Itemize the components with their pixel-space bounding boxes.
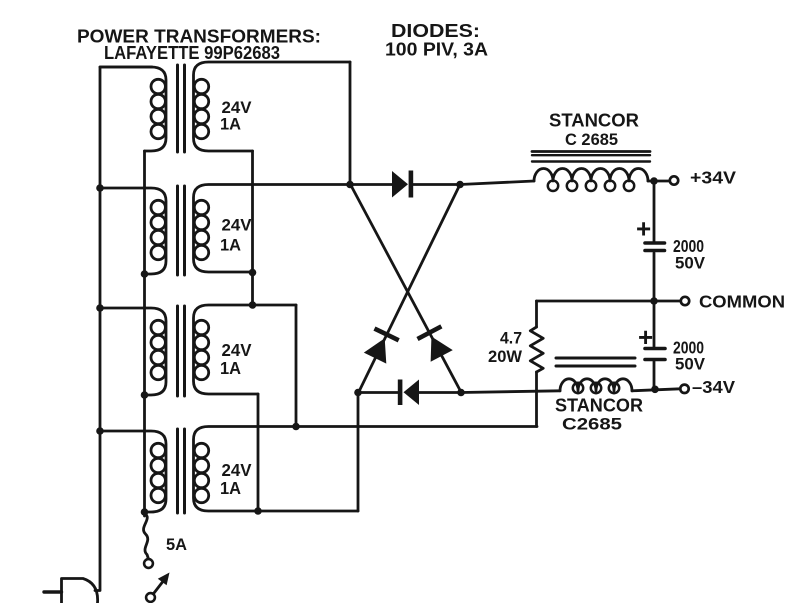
label COMMON [699, 292, 785, 312]
node T3 primary top on bus A [96, 304, 104, 312]
wire T1 sec top feeder (x=350) [349, 62, 352, 185]
wire bridge top right segment [413, 183, 460, 186]
svg-text:24V: 24V [222, 460, 252, 480]
svg-text:1A: 1A [220, 237, 241, 255]
label T1 24V [222, 99, 252, 117]
svg-text:20W: 20W [488, 347, 523, 366]
node bridge DC- (bottom right) [457, 389, 465, 397]
label POWER TRANSFORMERS heading [77, 26, 321, 47]
transformer T2 primary winding [100, 188, 166, 274]
svg-text:1A: 1A [220, 116, 241, 134]
terminal COMMON [681, 297, 689, 305]
choke L1 core [532, 152, 650, 162]
label -34V [692, 377, 735, 397]
label C2 50V [675, 355, 706, 374]
label DIODES heading [391, 20, 480, 41]
node bridge AC2 (bottom left) [354, 389, 362, 397]
wire bridge top left segment [350, 183, 392, 186]
wire T3 sec bottom drop (x=258) [257, 394, 260, 511]
switch blade arrowhead [158, 573, 170, 586]
svg-text:1A: 1A [220, 478, 241, 498]
node COMMON junction [650, 297, 658, 305]
svg-text:5A: 5A [166, 535, 187, 554]
wire bridge bottom left segment [358, 391, 398, 394]
svg-text:100 PIV, 3A: 100 PIV, 3A [385, 39, 488, 60]
terminal switch bottom [146, 593, 155, 602]
label T2 24V [222, 217, 252, 235]
wire AC2 riser (x=358) [357, 393, 360, 512]
label C1 50V [675, 254, 706, 273]
svg-text:4.7: 4.7 [500, 329, 522, 348]
svg-text:+: + [636, 214, 651, 244]
AC plug body [62, 579, 98, 603]
transformer T1 primary winding [100, 67, 166, 151]
diode D1 (top, points right) [392, 171, 413, 198]
capacitor C2 plates [645, 349, 665, 360]
wire +34V node to C1 [653, 181, 656, 242]
wire diagonal A (AC1 to DC-) [351, 186, 461, 393]
svg-text:COMMON: COMMON [699, 292, 785, 312]
choke L2 core [556, 358, 635, 366]
transformer T4 secondary winding [194, 427, 538, 512]
terminal fuse bottom [144, 559, 153, 568]
transformer T2 core [178, 186, 185, 275]
fuse 5A squiggle [144, 513, 149, 559]
wire DC+ to choke L1 [460, 181, 534, 185]
node T3 primary bottom on bus B [141, 391, 149, 399]
transformer T3 core [178, 306, 185, 396]
label T3 1A [220, 358, 241, 378]
wire resistor to centre-tap line [535, 372, 538, 427]
node +34V junction [650, 177, 658, 185]
transformer T3 primary winding [100, 308, 166, 395]
diode D3 (on diagonal B, points up-right) [363, 326, 400, 364]
label STANCOR (L1) [549, 111, 639, 131]
label T4 1A [220, 478, 241, 498]
node T2 primary top on bus A [96, 184, 104, 192]
wire COMMON rail [537, 300, 680, 303]
node T2 primary bottom on bus B [141, 270, 149, 278]
wire COMMON corner to resistor [535, 301, 538, 327]
label R1 4.7 [500, 329, 522, 348]
label R1 20W [488, 347, 523, 366]
svg-text:STANCOR: STANCOR [555, 396, 643, 416]
node T4 primary bottom on bus B [141, 508, 149, 516]
node T4 primary top on bus A [96, 427, 104, 435]
label 5A [166, 535, 187, 554]
wire choke L2 to -34V terminal [632, 389, 680, 391]
AC plug prong [44, 590, 62, 593]
wire T3 sec top drop to centre tap (x=296) [295, 305, 298, 427]
label C2 2000 [673, 338, 704, 358]
svg-text:50V: 50V [675, 355, 706, 374]
wire C1 to COMMON [653, 253, 656, 301]
terminal +34V [670, 176, 678, 184]
wire primary bus A (line side, x=100) [95, 67, 152, 591]
diode D4 (bottom, points left) [398, 380, 419, 406]
transformer T4 primary winding [100, 431, 166, 512]
node centre-tap junction [292, 423, 300, 431]
label T1 1A [220, 116, 241, 134]
terminal -34V [680, 385, 688, 393]
label C1 2000 [673, 236, 704, 256]
svg-text:24V: 24V [222, 99, 252, 117]
resistor R1 4.7 ohm [530, 327, 543, 372]
node pair-A bottom to centre tap junction [249, 301, 257, 309]
label STANCOR (L2) [555, 396, 643, 416]
label C1 polarity + [636, 214, 651, 244]
svg-text:STANCOR: STANCOR [549, 111, 639, 131]
wire COMMON node to C2 [653, 301, 656, 347]
diode D2 (on diagonal A, points up-left) [416, 324, 453, 362]
label C 2685 (L1) [565, 130, 618, 149]
wire primary bus B (x=144.5) [143, 151, 146, 516]
svg-text:–34V: –34V [692, 377, 735, 397]
wire C2 to -34V rail [653, 361, 656, 389]
node T2 secondary bottom junction [249, 269, 257, 277]
wire bridge bottom right segment [419, 391, 461, 394]
label T3 24V [222, 340, 252, 360]
switch blade arm [154, 582, 163, 593]
label +34V [690, 168, 736, 188]
node AC2 line junction [254, 507, 262, 515]
choke L2 winding [560, 379, 632, 393]
label C2685 (L2) [562, 415, 622, 434]
svg-text:C2685: C2685 [562, 415, 622, 434]
wire choke L1 to +34V terminal [648, 180, 670, 183]
svg-text:1A: 1A [220, 358, 241, 378]
transformer T1 secondary winding [194, 62, 351, 151]
capacitor C1 plates [645, 243, 665, 251]
svg-text:+34V: +34V [690, 168, 736, 188]
node bridge AC1 (top left) [346, 181, 354, 189]
label T4 24V [222, 460, 252, 480]
label 100 PIV 3A [385, 39, 488, 60]
label LAFAYETTE 99P62683 [104, 42, 280, 63]
svg-text:24V: 24V [222, 217, 252, 235]
wire DC- to choke L2 [461, 391, 560, 393]
svg-text:C 2685: C 2685 [565, 130, 618, 149]
choke L1 winding [534, 169, 648, 192]
wire T1 sec bottom to T2 sec bottom (x=251) [251, 151, 254, 305]
transformer T4 core [178, 429, 185, 513]
wire diagonal B (DC+ to AC2) [359, 186, 460, 393]
label T2 1A [220, 237, 241, 255]
svg-text:LAFAYETTE 99P62683: LAFAYETTE 99P62683 [104, 42, 280, 63]
node -34V junction [651, 386, 659, 394]
node bridge DC+ (top right) [456, 181, 464, 189]
label C2 polarity + [638, 322, 653, 352]
svg-text:+: + [638, 322, 653, 352]
svg-text:50V: 50V [675, 254, 706, 273]
transformer T3 secondary winding [194, 305, 297, 394]
transformer T1 core [178, 65, 185, 152]
svg-text:24V: 24V [222, 340, 252, 360]
transformer T2 secondary winding [194, 185, 351, 273]
